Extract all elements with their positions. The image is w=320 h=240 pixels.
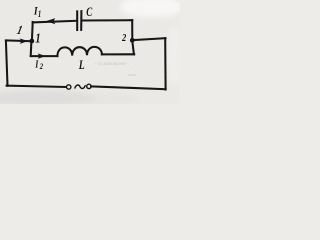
AC source circle terminal right	[87, 84, 91, 88]
svg-text:C: C	[86, 6, 93, 20]
label C	[86, 6, 93, 20]
label I1	[33, 5, 38, 18]
svg-text:· ток ·: · ток ·	[126, 72, 138, 77]
svg-text:L: L	[78, 59, 85, 73]
svg-text:1: 1	[38, 9, 41, 19]
current arrow I2 on middle branch (pointing right)	[38, 53, 46, 58]
svg-text:- го.работает ·.: - го.работает ·.	[95, 62, 129, 67]
node 2 junction dot	[130, 38, 135, 43]
paper background	[0, 0, 180, 104]
label node 1	[35, 30, 40, 46]
wire: top branch right segment (capacitor to right corner)	[82, 19, 132, 21]
wire: riser to node 2	[132, 40, 134, 54]
capacitor C left plate	[76, 11, 78, 30]
wire: bottom left horizontal	[7, 86, 66, 87]
label L	[78, 59, 85, 73]
AC source circle terminal left	[67, 85, 71, 89]
current arrow I1 on top wire (pointing left)	[46, 18, 55, 24]
wire: left horizontal into node 1	[6, 39, 32, 42]
svg-text:I: I	[34, 58, 38, 69]
AC source tilde	[75, 85, 86, 89]
wire: node1 riser	[31, 22, 34, 41]
svg-text:1: 1	[35, 30, 40, 46]
faint print-through smudge	[95, 62, 138, 77]
label I2	[34, 58, 38, 69]
capacitor C right plate	[80, 11, 82, 30]
label node 2	[121, 33, 126, 44]
wire: top-right corner drop to node 2	[131, 20, 133, 40]
wire: bottom right horizontal	[91, 86, 166, 89]
wire: middle branch left (to inductor)	[31, 55, 58, 57]
wire: left vertical	[6, 41, 8, 86]
label I (left arrow)	[15, 24, 23, 37]
svg-text:2: 2	[121, 33, 126, 44]
paper shading patches	[0, 0, 184, 106]
svg-text:2: 2	[39, 61, 43, 71]
node 1 junction dot	[29, 39, 34, 44]
wire: node1 drop	[30, 41, 33, 56]
current arrow I into node 1 (pointing right)	[20, 38, 28, 44]
wire: middle branch right (inductor to corner)	[102, 53, 134, 55]
wire: top branch left segment (node1 corner to capacitor)	[33, 21, 77, 23]
inductor L coil	[57, 47, 102, 56]
wire: right vertical	[164, 38, 166, 89]
wire: node2 to right corner	[132, 38, 165, 40]
